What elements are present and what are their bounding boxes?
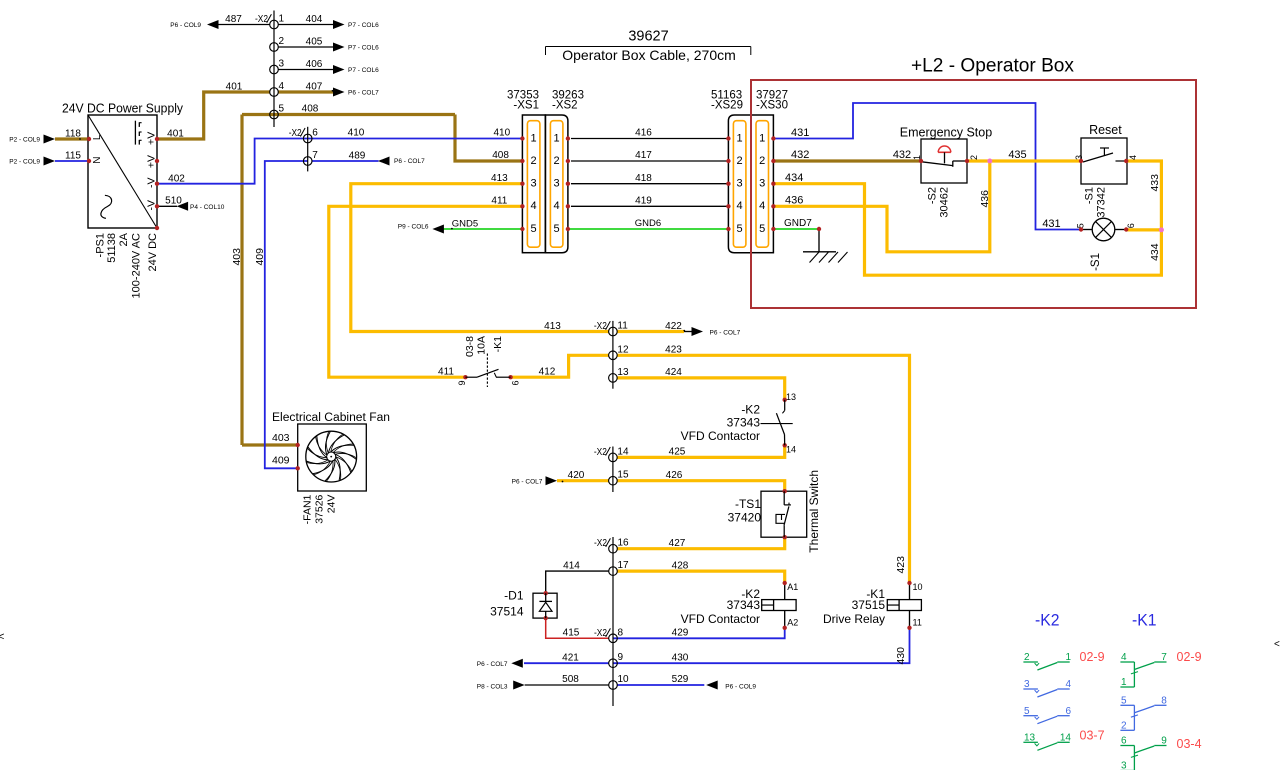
svg-text:422: 422 — [665, 321, 682, 332]
svg-text:434: 434 — [785, 172, 803, 184]
svg-text:3: 3 — [1121, 761, 1127, 770]
svg-text:419: 419 — [635, 195, 652, 206]
svg-text:431: 431 — [1042, 218, 1060, 230]
svg-text:-X2: -X2 — [594, 447, 607, 458]
svg-text:408: 408 — [492, 150, 509, 161]
svg-text:508: 508 — [562, 674, 579, 685]
svg-text:2: 2 — [554, 155, 560, 167]
svg-text:+V: +V — [146, 155, 158, 168]
svg-text:03-8: 03-8 — [464, 336, 476, 357]
svg-text:P6 - COL7: P6 - COL7 — [512, 478, 543, 485]
svg-text:418: 418 — [635, 173, 652, 184]
svg-text:3: 3 — [759, 178, 765, 190]
svg-text:17: 17 — [618, 560, 630, 571]
svg-text:-K1: -K1 — [492, 336, 504, 353]
svg-text:P2 - COL9: P2 - COL9 — [9, 137, 40, 144]
svg-text:-X2: -X2 — [594, 538, 607, 549]
svg-text:6: 6 — [312, 128, 318, 139]
svg-text:P6 - COL7: P6 - COL7 — [477, 661, 508, 668]
svg-text:8: 8 — [618, 627, 624, 638]
svg-text:39627: 39627 — [628, 29, 668, 45]
svg-text:403: 403 — [231, 248, 243, 266]
svg-text:37514: 37514 — [490, 605, 524, 619]
svg-text:416: 416 — [635, 128, 652, 139]
svg-text:-X2: -X2 — [289, 128, 302, 139]
svg-text:1: 1 — [279, 14, 285, 25]
svg-text:14: 14 — [617, 446, 629, 457]
svg-text:24V: 24V — [326, 495, 338, 514]
svg-text:9: 9 — [1161, 736, 1167, 747]
svg-text:37343: 37343 — [727, 598, 761, 612]
svg-text:P6 - COL9: P6 - COL9 — [170, 22, 201, 29]
svg-text:432: 432 — [791, 149, 809, 161]
svg-text:429: 429 — [672, 628, 689, 639]
svg-text:+L2 - Operator Box: +L2 - Operator Box — [911, 56, 1074, 77]
svg-text:1: 1 — [759, 132, 765, 144]
svg-text:02-9: 02-9 — [1080, 650, 1105, 664]
svg-text:8: 8 — [1161, 696, 1167, 707]
svg-text:3: 3 — [737, 178, 743, 190]
svg-text:10A: 10A — [476, 336, 488, 355]
svg-text:N: N — [92, 157, 103, 164]
svg-text:A2: A2 — [787, 618, 798, 628]
svg-text:3: 3 — [1024, 679, 1030, 690]
svg-text:VFD Contactor: VFD Contactor — [681, 429, 760, 443]
svg-text:4: 4 — [279, 81, 285, 92]
svg-text:3: 3 — [554, 178, 560, 190]
svg-text:P7 - COL6: P7 - COL6 — [348, 22, 379, 29]
svg-text:409: 409 — [254, 248, 266, 266]
svg-text:414: 414 — [563, 560, 580, 571]
svg-text:03-4: 03-4 — [1177, 737, 1202, 751]
svg-text:P9 - COL6: P9 - COL6 — [398, 223, 429, 230]
svg-text:P2 - COL9: P2 - COL9 — [9, 159, 40, 166]
svg-text:4: 4 — [1065, 679, 1071, 690]
svg-text:413: 413 — [544, 321, 561, 332]
svg-text:Electrical Cabinet Fan: Electrical Cabinet Fan — [272, 412, 390, 424]
svg-text:Operator Box Cable, 270cm: Operator Box Cable, 270cm — [562, 47, 736, 63]
svg-text:P7 - COL6: P7 - COL6 — [348, 45, 379, 52]
svg-text:2: 2 — [737, 155, 743, 167]
svg-text:37526: 37526 — [314, 494, 326, 523]
svg-text:1: 1 — [737, 132, 743, 144]
svg-text:24V DC: 24V DC — [147, 233, 159, 272]
svg-text:410: 410 — [493, 128, 510, 139]
svg-text:430: 430 — [895, 647, 907, 665]
svg-text:2: 2 — [279, 36, 285, 47]
svg-text:404: 404 — [306, 14, 323, 25]
svg-text:407: 407 — [306, 82, 323, 93]
svg-text:10: 10 — [913, 582, 923, 592]
svg-text:415: 415 — [563, 628, 580, 639]
svg-text:5: 5 — [1024, 706, 1030, 717]
svg-text:A1: A1 — [787, 582, 798, 592]
svg-text:10: 10 — [618, 674, 630, 685]
svg-text:14: 14 — [786, 445, 796, 455]
svg-text:15: 15 — [617, 470, 629, 481]
svg-text:2: 2 — [969, 155, 979, 160]
svg-text:3: 3 — [531, 178, 537, 190]
svg-text:432: 432 — [893, 149, 911, 161]
svg-text:413: 413 — [491, 173, 508, 184]
svg-text:115: 115 — [65, 151, 81, 162]
svg-text:2: 2 — [1024, 652, 1030, 663]
svg-text:37342: 37342 — [1096, 187, 1108, 218]
svg-text:03-7: 03-7 — [1080, 729, 1105, 743]
svg-text:-XS1: -XS1 — [513, 100, 539, 112]
svg-text:P8 - COL3: P8 - COL3 — [477, 683, 508, 690]
svg-text:401: 401 — [167, 129, 184, 140]
svg-text:13: 13 — [1024, 733, 1036, 744]
svg-text:428: 428 — [672, 560, 689, 571]
svg-text:2: 2 — [759, 155, 765, 167]
svg-text:-XS30: -XS30 — [756, 100, 788, 112]
svg-text:-X2: -X2 — [594, 321, 607, 332]
svg-text:2A: 2A — [118, 232, 130, 246]
svg-text:51138: 51138 — [106, 233, 118, 263]
svg-text:424: 424 — [665, 367, 682, 378]
svg-text:529: 529 — [672, 674, 689, 685]
svg-text:02-9: 02-9 — [1177, 650, 1202, 664]
svg-text:5: 5 — [1121, 696, 1127, 707]
svg-text:13: 13 — [617, 367, 629, 378]
svg-text:-S2: -S2 — [926, 187, 938, 204]
svg-text:-K1: -K1 — [1132, 612, 1157, 630]
svg-text:30462: 30462 — [939, 187, 951, 218]
svg-text:403: 403 — [272, 432, 290, 444]
svg-text:420: 420 — [568, 470, 585, 481]
svg-text:GND6: GND6 — [635, 218, 661, 229]
svg-text:6: 6 — [1065, 706, 1071, 717]
svg-text:1: 1 — [531, 132, 537, 144]
svg-text:1: 1 — [1121, 677, 1127, 688]
svg-text:-V: -V — [146, 200, 158, 211]
svg-text:406: 406 — [306, 59, 323, 70]
svg-text:5: 5 — [737, 223, 743, 235]
svg-text:-XS2: -XS2 — [552, 100, 578, 112]
svg-text:2: 2 — [531, 155, 537, 167]
svg-text:P7 - COL6: P7 - COL6 — [348, 67, 379, 74]
svg-text:427: 427 — [669, 538, 686, 549]
svg-text:489: 489 — [349, 150, 366, 161]
svg-text:430: 430 — [672, 652, 689, 663]
svg-text:12: 12 — [617, 344, 629, 355]
svg-text:-TS1: -TS1 — [735, 497, 761, 511]
svg-text:14: 14 — [1060, 733, 1072, 744]
svg-text:401: 401 — [226, 82, 243, 93]
svg-text:421: 421 — [562, 652, 579, 663]
svg-text:5: 5 — [759, 223, 765, 235]
svg-text:100-240V AC: 100-240V AC — [131, 233, 143, 298]
svg-text:412: 412 — [539, 367, 556, 378]
svg-text:37515: 37515 — [852, 598, 886, 612]
svg-text:435: 435 — [1008, 149, 1026, 161]
svg-text:431: 431 — [791, 127, 809, 139]
svg-text:3: 3 — [279, 59, 285, 70]
svg-text:402: 402 — [168, 174, 185, 185]
svg-text:4: 4 — [737, 200, 743, 212]
svg-text:510: 510 — [165, 196, 182, 207]
svg-text:434: 434 — [1149, 243, 1161, 261]
svg-text:6: 6 — [510, 380, 520, 385]
svg-text:Drive Relay: Drive Relay — [823, 612, 885, 626]
svg-text:425: 425 — [669, 447, 686, 458]
svg-text:-S1: -S1 — [1084, 187, 1096, 204]
svg-text:13: 13 — [786, 392, 796, 402]
svg-text:4: 4 — [531, 200, 537, 212]
svg-text:P6 - COL7: P6 - COL7 — [348, 90, 379, 97]
svg-text:5: 5 — [531, 223, 537, 235]
svg-text:-S1: -S1 — [1090, 253, 1102, 271]
svg-text:-K2: -K2 — [1035, 612, 1060, 630]
svg-text:9: 9 — [457, 380, 467, 385]
svg-text:436: 436 — [785, 194, 803, 206]
svg-text:P6 - COL7: P6 - COL7 — [394, 158, 425, 165]
svg-text:5: 5 — [279, 104, 285, 115]
svg-text:L: L — [92, 134, 103, 140]
svg-text:411: 411 — [438, 367, 454, 378]
svg-text:37343: 37343 — [727, 416, 761, 430]
svg-text:408: 408 — [302, 104, 319, 115]
svg-text:GND5: GND5 — [452, 219, 478, 230]
svg-text:P4 - COL10: P4 - COL10 — [190, 204, 225, 211]
svg-text:P6 - COL7: P6 - COL7 — [710, 330, 741, 337]
svg-text:4: 4 — [554, 200, 560, 212]
svg-text:411: 411 — [491, 196, 507, 207]
svg-text:1: 1 — [1065, 652, 1071, 663]
svg-text:-FAN1: -FAN1 — [302, 494, 314, 524]
svg-text:<: < — [1274, 639, 1280, 650]
svg-text:-X2: -X2 — [255, 14, 268, 25]
svg-text:487: 487 — [225, 14, 242, 25]
svg-text:1: 1 — [554, 132, 560, 144]
svg-text:24V DC Power Supply: 24V DC Power Supply — [62, 101, 183, 116]
svg-text:7: 7 — [1161, 652, 1167, 663]
svg-text:423: 423 — [665, 345, 682, 356]
svg-text:Reset: Reset — [1089, 123, 1122, 137]
svg-text:118: 118 — [65, 129, 81, 140]
svg-text:426: 426 — [666, 470, 683, 481]
svg-text:3: 3 — [1074, 155, 1084, 160]
svg-text:11: 11 — [913, 618, 922, 628]
svg-text:11: 11 — [617, 321, 628, 332]
svg-text:4: 4 — [1128, 155, 1138, 160]
svg-text:-K2: -K2 — [741, 403, 760, 417]
svg-text:P6 - COL9: P6 - COL9 — [725, 683, 756, 690]
svg-text:433: 433 — [1149, 174, 1161, 192]
svg-text:-XS29: -XS29 — [711, 100, 743, 112]
svg-text:Thermal Switch: Thermal Switch — [807, 470, 821, 553]
svg-text:16: 16 — [618, 538, 630, 549]
svg-text:417: 417 — [635, 150, 652, 161]
svg-text:5: 5 — [554, 223, 560, 235]
svg-text:2: 2 — [1121, 721, 1127, 732]
svg-text:405: 405 — [306, 37, 323, 48]
svg-text:<: < — [0, 631, 4, 643]
svg-text:423: 423 — [895, 556, 907, 574]
svg-text:4: 4 — [759, 200, 765, 212]
svg-text:410: 410 — [348, 128, 365, 139]
svg-text:6: 6 — [1126, 223, 1136, 228]
svg-text:7: 7 — [312, 150, 318, 161]
svg-text:GND7: GND7 — [784, 218, 812, 229]
svg-text:VFD Contactor: VFD Contactor — [681, 612, 760, 626]
svg-text:+V: +V — [146, 132, 158, 145]
svg-text:Emergency Stop: Emergency Stop — [900, 126, 992, 140]
svg-text:-V: -V — [146, 178, 158, 189]
svg-text:37420: 37420 — [728, 511, 762, 525]
svg-text:-PS1: -PS1 — [94, 233, 106, 257]
svg-text:4: 4 — [1121, 652, 1127, 663]
svg-text:409: 409 — [272, 455, 290, 467]
svg-text:-D1: -D1 — [504, 589, 524, 603]
svg-text:-X2: -X2 — [594, 628, 607, 639]
svg-text:436: 436 — [979, 190, 991, 208]
svg-text:6: 6 — [1121, 736, 1127, 747]
svg-text:9: 9 — [618, 652, 624, 663]
